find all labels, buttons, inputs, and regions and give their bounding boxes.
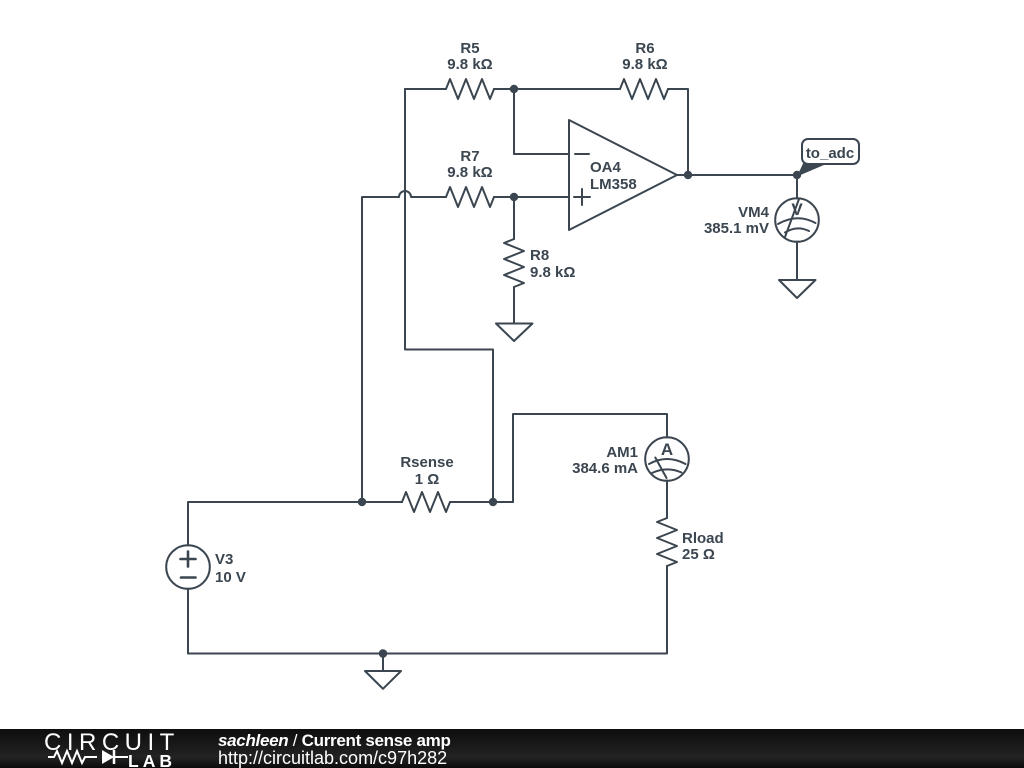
resistor R6 — [620, 79, 668, 99]
svg-text:10 V: 10 V — [215, 569, 246, 586]
voltmeter VM4 — [775, 198, 819, 242]
svg-text:385.1 mV: 385.1 mV — [704, 220, 769, 237]
svg-text:25 Ω: 25 Ω — [682, 546, 715, 563]
resistor Rsense — [402, 492, 450, 512]
wire: node A to inverting input — [514, 89, 569, 154]
svg-text:R6: R6 — [635, 40, 654, 57]
footer bar — [0, 729, 1024, 768]
svg-text:R8: R8 — [530, 247, 549, 264]
wire: V3 top lead to Rsense — [188, 502, 402, 546]
svg-text:AM1: AM1 — [606, 444, 638, 461]
wire: op-amp output to to_adc node — [677, 174, 797, 176]
op-amp OA4 — [569, 120, 677, 230]
resistor Rload — [657, 518, 677, 566]
svg-text:9.8 kΩ: 9.8 kΩ — [447, 164, 492, 181]
logo resistor+diode glyph — [48, 751, 128, 763]
svg-text:VM4: VM4 — [738, 204, 770, 221]
ground below VM4 — [779, 280, 816, 298]
wire: AM1 to Rload — [666, 481, 668, 519]
svg-text:to_adc: to_adc — [806, 145, 854, 162]
Rsense left junction dot — [358, 498, 366, 506]
wire: R7 left lead with hop over vertical — [362, 191, 446, 502]
op-amp plus pin — [574, 189, 590, 205]
wire: R8 bottom lead — [513, 287, 515, 324]
wire: R6 right lead down to output — [668, 89, 688, 175]
svg-text:R7: R7 — [460, 148, 479, 165]
svg-text:V: V — [791, 200, 803, 219]
svg-text:Rload: Rload — [682, 530, 724, 547]
output junction dot — [684, 171, 692, 179]
svg-text:9.8 kΩ: 9.8 kΩ — [530, 264, 575, 281]
wire: VM4 bottom lead — [796, 242, 798, 281]
svg-text:1 Ω: 1 Ω — [415, 471, 440, 488]
ground below R8 — [496, 324, 533, 342]
wire: node A top between R5 and R6 — [494, 88, 620, 90]
wire: feedback left vertical from R5 left down, over to Rsense right node — [405, 89, 493, 502]
logo diode — [102, 750, 114, 764]
voltage source V3 — [166, 545, 210, 589]
resistor R8 — [504, 239, 524, 287]
svg-text:LAB: LAB — [128, 751, 176, 768]
Rsense right junction dot — [489, 498, 497, 506]
wire: Rsense right lead — [450, 501, 513, 503]
svg-text:9.8 kΩ: 9.8 kΩ — [622, 56, 667, 73]
wire: R7 right lead to non-inverting input — [494, 196, 569, 198]
node A junction dot — [510, 85, 518, 93]
to_adc flag pointer — [797, 163, 825, 177]
resistor R5 — [446, 79, 494, 99]
svg-text:OA4: OA4 — [590, 159, 622, 176]
svg-text:A: A — [661, 440, 673, 459]
resistor R7 — [446, 187, 494, 207]
wire: VM4 top lead — [796, 175, 798, 199]
wire: R8 top lead — [513, 197, 515, 239]
to_adc junction dot — [793, 171, 801, 179]
ammeter AM1 — [645, 437, 689, 481]
wire: Rsense node up and over to AM1 — [513, 414, 667, 502]
svg-text:384.6 mA: 384.6 mA — [572, 460, 638, 477]
svg-text:LM358: LM358 — [590, 176, 637, 193]
op-amp minus pin — [575, 153, 589, 155]
svg-text:Rsense: Rsense — [400, 454, 453, 471]
ground at bottom rail — [365, 654, 401, 689]
node B junction dot — [510, 193, 518, 201]
wire: R5 left lead — [405, 88, 446, 90]
bottom rail ground junction dot — [379, 649, 388, 658]
svg-text:9.8 kΩ: 9.8 kΩ — [447, 56, 492, 73]
svg-text:http://circuitlab.com/c97h282: http://circuitlab.com/c97h282 — [218, 748, 447, 768]
net flag to_adc — [802, 139, 859, 164]
svg-text:V3: V3 — [215, 551, 233, 568]
svg-text:R5: R5 — [460, 40, 479, 57]
wire: Rload bottom to bottom rail — [188, 566, 667, 654]
